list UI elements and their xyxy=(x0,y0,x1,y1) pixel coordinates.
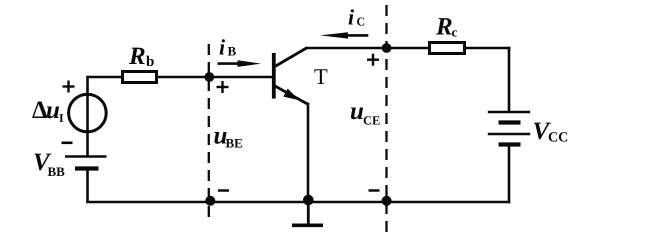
svg-text:c: c xyxy=(452,25,458,40)
source ∆uI circle xyxy=(69,94,107,132)
battery VCC long plate 2 xyxy=(488,133,530,136)
wire: below VBB down to bottom rail xyxy=(86,169,89,203)
svg-text:i: i xyxy=(219,35,226,60)
wire: bottom rail xyxy=(86,201,510,204)
plus sign of source xyxy=(63,81,75,93)
battery VCC long plate 1 xyxy=(488,111,530,114)
ground symbol xyxy=(292,200,323,225)
dashed line at uCE node xyxy=(385,5,387,235)
battery VCC short thick plate 2 xyxy=(499,142,521,146)
plus sign at uCE top xyxy=(367,54,379,66)
node bottom of uCE xyxy=(382,196,392,206)
svg-text:C: C xyxy=(357,15,366,29)
wire: below VCC down to bottom rail xyxy=(508,145,511,204)
minus sign at uCE bottom xyxy=(369,189,380,192)
svg-text:R: R xyxy=(435,14,453,41)
svg-text:BE: BE xyxy=(226,136,243,151)
transistor emitter diagonal xyxy=(274,86,308,105)
node E (emitter/ground junction) xyxy=(303,195,314,206)
minus sign at uBE bottom xyxy=(218,189,229,192)
svg-text:u: u xyxy=(350,98,364,125)
svg-text:CC: CC xyxy=(548,131,568,146)
node C (collector, top of uCE) xyxy=(382,43,392,53)
node B (base, top of uBE) xyxy=(204,72,214,82)
minus sign of source xyxy=(62,142,73,145)
wire: left vertical through source down to battery xyxy=(86,76,89,156)
battery VCC short thick plate 1 xyxy=(499,120,521,124)
emitter arrow head xyxy=(283,89,299,101)
wire: emitter vertical down to ground node xyxy=(307,103,310,203)
transistor collector diagonal xyxy=(274,48,307,67)
plus sign at uBE top xyxy=(217,81,229,93)
dashed line at uBE node xyxy=(208,44,210,224)
svg-text:CE: CE xyxy=(363,114,380,128)
svg-text:i: i xyxy=(348,5,355,30)
svg-text:BB: BB xyxy=(48,164,66,179)
transistor T base bar xyxy=(272,53,276,99)
svg-text:T: T xyxy=(314,64,328,89)
wire: top rail from collector to right corner xyxy=(305,47,510,50)
svg-text:u: u xyxy=(46,97,60,124)
node bottom of uBE xyxy=(205,196,215,206)
battery VBB short thick plate xyxy=(75,166,99,170)
svg-text:R: R xyxy=(128,43,146,70)
svg-text:b: b xyxy=(146,54,154,70)
wire: right vertical from top rail to VCC xyxy=(508,47,511,112)
svg-text:I: I xyxy=(59,111,64,125)
iC current arrow xyxy=(320,32,368,38)
resistor Rc xyxy=(430,43,465,54)
svg-text:B: B xyxy=(228,44,237,59)
resistor Rb xyxy=(123,72,157,83)
wire: base wire from source corner to transistor base xyxy=(88,76,274,79)
iB current arrow xyxy=(218,60,262,67)
battery VBB long plate xyxy=(65,155,107,158)
